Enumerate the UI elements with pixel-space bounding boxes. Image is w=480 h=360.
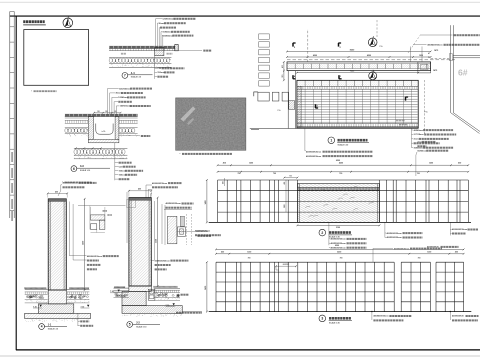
svg-text:150: 150 bbox=[282, 75, 284, 78]
wall4 top annotation leader bbox=[58, 185, 62, 196]
svg-text:700: 700 bbox=[339, 173, 342, 175]
svg-text:4: 4 bbox=[41, 325, 43, 329]
wall4 right ground grass bbox=[69, 287, 71, 289]
svg-text:3100: 3100 bbox=[336, 227, 340, 229]
svg-text:40X40mm: 40X40mm bbox=[414, 129, 424, 132]
svg-text:400X600X30mm: 400X600X30mm bbox=[152, 182, 167, 185]
corner detail 2 leader line bbox=[164, 209, 192, 211]
svg-text:400X600X30mm: 400X600X30mm bbox=[166, 202, 181, 205]
plan lower-right annotation block bbox=[411, 128, 413, 147]
detail 3-3 lower dim ticks bbox=[76, 147, 101, 149]
elev1 panel top small dim bbox=[284, 177, 297, 179]
svg-text:1150: 1150 bbox=[156, 239, 158, 243]
svg-text:4200: 4200 bbox=[337, 250, 341, 253]
elev2 bottom annotation stack B bbox=[449, 312, 451, 320]
plan band left hatched end bbox=[297, 86, 301, 127]
wall5 label circle 5 bbox=[127, 322, 133, 328]
svg-text:1400: 1400 bbox=[82, 241, 85, 245]
plan top dimension line 2 bbox=[287, 56, 431, 58]
detail 4-4 gravel layer bbox=[109, 56, 171, 58]
elev2 bottom annotation stack A bbox=[371, 312, 373, 320]
detail 3-3 small dims bbox=[94, 112, 121, 114]
wall4 lower leaders bbox=[77, 313, 79, 326]
svg-text:1400: 1400 bbox=[204, 200, 207, 204]
plan strip left pier bbox=[287, 71, 289, 129]
svg-text:1200: 1200 bbox=[427, 251, 431, 253]
detail 4-4 annotation leaders bbox=[156, 18, 163, 20]
svg-text:30mm: 30mm bbox=[116, 93, 122, 95]
plan legend rectangle row bbox=[258, 92, 269, 101]
plan legend rectangle column bbox=[259, 34, 270, 39]
svg-text:6: 6 bbox=[73, 167, 75, 171]
detail 3-3 trench walls bbox=[88, 117, 93, 140]
svg-text:700: 700 bbox=[273, 173, 276, 175]
elev2 top right annotation bbox=[373, 248, 393, 250]
svg-text:1200: 1200 bbox=[284, 204, 286, 208]
plan band bottom edge bbox=[297, 126, 418, 128]
plan section flag 2 right bbox=[338, 43, 340, 47]
wall4 left ground grass bbox=[24, 287, 26, 289]
wall4 right vertical dim bbox=[84, 199, 86, 290]
wall5 footing block bbox=[122, 291, 146, 305]
svg-text:10X40mm: 10X40mm bbox=[162, 31, 172, 34]
svg-text:*: * bbox=[180, 154, 181, 156]
detail 4-4 small marks bbox=[121, 53, 123, 55]
elev1 grid verticals left bbox=[217, 180, 219, 222]
svg-text:700: 700 bbox=[289, 176, 292, 178]
svg-text:1200: 1200 bbox=[247, 251, 251, 253]
wall5 footing slab bbox=[122, 306, 182, 314]
detail 4-4 paver course bbox=[109, 46, 175, 49]
svg-text:400X600X30mm: 400X600X30mm bbox=[63, 182, 78, 185]
plan dashed connector to building bbox=[431, 58, 451, 60]
svg-text:6200: 6200 bbox=[335, 245, 339, 247]
svg-text:1200: 1200 bbox=[429, 163, 433, 165]
svg-text:125X150mm: 125X150mm bbox=[119, 88, 131, 90]
wall4 facing bands bbox=[48, 199, 66, 202]
wall5 dashed box top left bbox=[127, 200, 136, 208]
svg-text:1: 1 bbox=[330, 139, 332, 143]
elev1 grid horizontals bbox=[218, 179, 469, 181]
detail 3-3 right base layers bbox=[119, 117, 138, 119]
svg-text:1200: 1200 bbox=[249, 163, 253, 165]
detail 4-4 anchor block bbox=[155, 47, 164, 55]
svg-text:4200: 4200 bbox=[367, 54, 371, 57]
svg-text:150: 150 bbox=[97, 111, 100, 113]
sheet border bottom bbox=[16, 349, 480, 351]
svg-text:SCALE 1:10: SCALE 1:10 bbox=[136, 326, 146, 329]
plan building 6# walls bbox=[450, 25, 452, 113]
svg-text:400: 400 bbox=[55, 190, 58, 193]
svg-text:10X40mm: 10X40mm bbox=[118, 96, 128, 99]
plan section flag lower right bbox=[338, 75, 340, 79]
detail 3-3 drain pipe leader bbox=[119, 134, 140, 137]
svg-text:4-4: 4-4 bbox=[131, 71, 135, 75]
plan strip end cap bbox=[418, 62, 431, 73]
svg-text:6#: 6# bbox=[458, 68, 468, 78]
svg-text:150: 150 bbox=[105, 111, 108, 113]
elev1 bottom annotation stack A bbox=[328, 222, 330, 245]
wall4 footing slab bbox=[25, 313, 91, 318]
stone sample photo bbox=[176, 98, 246, 150]
svg-text:1475: 1475 bbox=[434, 49, 438, 52]
svg-text:600X300: 600X300 bbox=[283, 264, 289, 266]
detail 3-3 left base layers bbox=[65, 117, 89, 119]
title strip left edge bbox=[9, 12, 11, 219]
wall5 right vertical dim bbox=[157, 198, 159, 286]
plan north arrow lower bbox=[369, 72, 377, 80]
svg-text:400: 400 bbox=[138, 188, 141, 191]
detail 3-3 paver course bbox=[65, 114, 138, 117]
wall5 left ground bbox=[113, 286, 115, 288]
svg-text:1400: 1400 bbox=[204, 286, 207, 290]
elev2 inner small dim bbox=[276, 265, 296, 267]
elev1 stone hatch panel bbox=[297, 184, 379, 223]
svg-text:700: 700 bbox=[238, 173, 241, 175]
plan building diagonal lines bbox=[451, 113, 480, 134]
plan annotation leader verticals bbox=[409, 47, 411, 62]
plan left vertical dim bbox=[283, 62, 285, 80]
wall5 soil text right bbox=[181, 294, 183, 296]
svg-text:400X600X30mm: 400X600X30mm bbox=[387, 232, 402, 235]
corner detail 2 dim arrows bbox=[178, 230, 197, 232]
elev2 label circle 3 bbox=[319, 315, 326, 322]
svg-text:2.7X18mm: 2.7X18mm bbox=[414, 134, 424, 136]
svg-text:*: * bbox=[31, 91, 32, 93]
wall4 right pavement layers bbox=[67, 288, 89, 290]
svg-text:700: 700 bbox=[417, 173, 420, 175]
wall4 left pavement layers bbox=[25, 288, 48, 290]
svg-text:400: 400 bbox=[281, 65, 284, 68]
svg-text:i=1%: i=1% bbox=[102, 131, 106, 133]
wall4 footing upper bbox=[38, 304, 74, 313]
svg-text:7: 7 bbox=[124, 74, 126, 78]
svg-text:150X50mm: 150X50mm bbox=[120, 106, 131, 108]
svg-text:600X600X20mm: 600X600X20mm bbox=[155, 260, 170, 262]
plan water feature band bbox=[297, 80, 418, 128]
elev1 bottom annotation stack C bbox=[449, 222, 451, 235]
title strip cells bbox=[10, 11, 14, 13]
detail 4-4 lower leaders bbox=[154, 56, 156, 79]
wall5 right pavement layers bbox=[154, 288, 180, 290]
svg-text:30X50mm: 30X50mm bbox=[414, 147, 424, 149]
plan annotation granite paving bbox=[413, 44, 427, 46]
svg-text:6200: 6200 bbox=[336, 160, 340, 162]
wall5 top annotation leaders bbox=[145, 185, 147, 198]
plan top dimension line 1 bbox=[287, 51, 431, 53]
svg-text:2mm: 2mm bbox=[414, 139, 419, 141]
plan ground line left of band bbox=[250, 127, 297, 129]
svg-text:4200: 4200 bbox=[313, 54, 317, 57]
detail 4-4 mortar course bbox=[109, 48, 175, 50]
paper edge bottom bbox=[0, 355, 480, 357]
svg-text:400: 400 bbox=[455, 250, 458, 253]
plan dashed leader up bbox=[307, 29, 309, 62]
paper edge top bbox=[0, 1, 480, 3]
wall5 garage slab leader bbox=[182, 311, 202, 313]
svg-text:400X600X30mm: 400X600X30mm bbox=[87, 255, 102, 258]
svg-text:400X500X30mm: 400X500X30mm bbox=[306, 155, 321, 158]
sheet border left bbox=[15, 16, 17, 350]
elev1 left vertical dim bbox=[206, 180, 208, 222]
wall5 shaft below ground bbox=[129, 286, 151, 291]
svg-text:2: 2 bbox=[321, 231, 323, 235]
elev2 left vertical dim bbox=[206, 262, 208, 311]
svg-text:700: 700 bbox=[248, 258, 251, 260]
svg-text:400: 400 bbox=[223, 162, 226, 165]
plan dashed gridline bbox=[287, 59, 455, 61]
elev1 dimension line overall bbox=[218, 164, 469, 166]
wall5 left pavement layers bbox=[114, 287, 129, 289]
elev1 top right annotations bbox=[415, 155, 417, 176]
bracket mark right of photo bbox=[254, 92, 258, 96]
svg-text:50X50mm: 50X50mm bbox=[417, 150, 427, 152]
svg-text:3: 3 bbox=[321, 317, 323, 321]
key plan rectangle bbox=[24, 30, 89, 86]
detail 3-3 section label circle 6 bbox=[71, 166, 77, 172]
wall4 width dim bbox=[48, 192, 67, 194]
wall4 shaft bbox=[48, 199, 66, 290]
plan band inner flag bbox=[315, 104, 317, 108]
plan dashed vertical right of band bbox=[423, 80, 425, 134]
svg-text:400X500X30mm: 400X500X30mm bbox=[387, 236, 402, 239]
svg-text:400X400X50mm: 400X400X50mm bbox=[427, 44, 442, 47]
svg-text:400X600X30mm: 400X600X30mm bbox=[394, 247, 409, 250]
plan band plank lines bbox=[298, 91, 418, 93]
svg-text:150: 150 bbox=[114, 111, 117, 113]
title strip cell text bbox=[11, 152, 13, 162]
elev1 bottom annotation stack B bbox=[384, 222, 386, 237]
corner detail 1 bbox=[89, 206, 91, 230]
svg-text:30mm: 30mm bbox=[158, 23, 164, 25]
elev2 grid panel C bbox=[436, 261, 464, 263]
svg-text:700: 700 bbox=[418, 258, 421, 260]
plan annotation rainwater cover bbox=[420, 34, 453, 36]
wall4 label circle 4 bbox=[39, 324, 45, 330]
plan label circle 1 bbox=[328, 137, 335, 144]
svg-text:5: 5 bbox=[129, 323, 131, 327]
svg-text:150X50mm: 150X50mm bbox=[162, 35, 173, 37]
svg-text:600: 600 bbox=[458, 163, 461, 165]
detail 3-3 trench channel bbox=[96, 124, 113, 135]
plan band coping row bbox=[297, 85, 418, 87]
plan section flag 4 left lower bbox=[292, 75, 294, 79]
elev1 panel texture strokes bbox=[309, 215, 314, 217]
svg-text:1030: 1030 bbox=[419, 55, 423, 57]
sheet border top bbox=[10, 15, 480, 17]
corner detail 2 bbox=[164, 205, 166, 245]
detail 4-4 section label circle 7 bbox=[122, 73, 128, 79]
wall5 shaft bbox=[129, 198, 151, 286]
svg-text:400X600X30: 400X600X30 bbox=[452, 315, 464, 318]
elev1 label circle 2 bbox=[319, 229, 326, 236]
svg-text:SCALE 1:30: SCALE 1:30 bbox=[338, 143, 349, 146]
corner detail 1 leader line bbox=[78, 205, 126, 207]
wall5 facing bands bbox=[129, 198, 151, 201]
plan band inner texts bbox=[396, 120, 398, 122]
svg-text:400X600X30mm: 400X600X30mm bbox=[306, 150, 321, 153]
detail 4-4 end curb bbox=[175, 45, 178, 51]
svg-text:SCALE 1:30: SCALE 1:30 bbox=[329, 322, 340, 325]
wall4 gravel under footing bbox=[78, 320, 80, 322]
svg-text:1475: 1475 bbox=[433, 69, 437, 72]
svg-text:400: 400 bbox=[221, 250, 224, 253]
svg-text:400X600X30mm: 400X600X30mm bbox=[452, 228, 467, 231]
svg-text:400X600X30: 400X600X30 bbox=[196, 230, 208, 233]
wall4 shaft below ground bbox=[48, 290, 66, 304]
svg-text:400X600X30mm: 400X600X30mm bbox=[331, 238, 346, 241]
plan dimension 7000 line bbox=[297, 72, 418, 74]
detail 3-3 lower leaders bbox=[114, 143, 116, 181]
key plan title bbox=[23, 20, 25, 23]
elev1 panel bottom dim bbox=[297, 224, 379, 226]
plan coping strip bbox=[287, 62, 431, 71]
detail 4-4 subgrade dots bbox=[145, 65, 147, 67]
plan north arrow upper bbox=[368, 38, 377, 47]
elev1 ground line bbox=[209, 221, 471, 223]
elev1 grid verticals right bbox=[379, 180, 381, 222]
svg-text:150mm: 150mm bbox=[157, 72, 164, 74]
svg-text:125X150mm: 125X150mm bbox=[162, 19, 174, 21]
plan section flag 5 left bbox=[292, 43, 294, 47]
svg-text:3-3: 3-3 bbox=[80, 164, 84, 168]
north arrow bbox=[63, 18, 73, 28]
svg-text:100mm: 100mm bbox=[119, 171, 126, 173]
plan band upper dark row bbox=[297, 88, 418, 90]
wall5 right leaders bbox=[153, 201, 155, 260]
wall5 drain block bbox=[148, 289, 155, 300]
svg-text:4200: 4200 bbox=[339, 162, 343, 165]
plan band lower dark row bbox=[297, 123, 418, 125]
elev2 dim segments bbox=[216, 253, 464, 255]
wall5 gravel under footing bbox=[166, 314, 168, 316]
detail 3-3 lower gravel layer bbox=[74, 147, 128, 149]
elev1 dimension line second bbox=[218, 171, 469, 173]
wall5 width dim bbox=[129, 190, 151, 192]
elev2 ground line bbox=[209, 311, 472, 313]
elev2 grid panel A bbox=[216, 261, 394, 263]
svg-text:SCALE 1:10: SCALE 1:10 bbox=[80, 169, 90, 172]
detail 4-4 right leader to soil text bbox=[178, 49, 202, 51]
svg-text:SCALE 1:10: SCALE 1:10 bbox=[131, 76, 141, 79]
svg-text:SCALE 1:10: SCALE 1:10 bbox=[48, 328, 58, 331]
svg-text:2mm: 2mm bbox=[417, 142, 422, 144]
elev1 inner vertical dims bbox=[224, 178, 226, 186]
svg-text:400X600X30mm: 400X600X30mm bbox=[373, 315, 388, 318]
wall5 right ground bbox=[153, 286, 155, 288]
elev2 grid panel B bbox=[401, 261, 430, 263]
detail 3-3 trench bottom slab bbox=[88, 139, 119, 143]
plan left lower annotations bbox=[304, 129, 306, 151]
plan north arrow centerline bbox=[376, 20, 378, 38]
detail 3-3 annotation leaders bbox=[108, 88, 119, 90]
svg-text:700: 700 bbox=[340, 258, 343, 260]
wall4 right leader lines bbox=[68, 202, 70, 256]
svg-text:150mm: 150mm bbox=[119, 175, 126, 177]
